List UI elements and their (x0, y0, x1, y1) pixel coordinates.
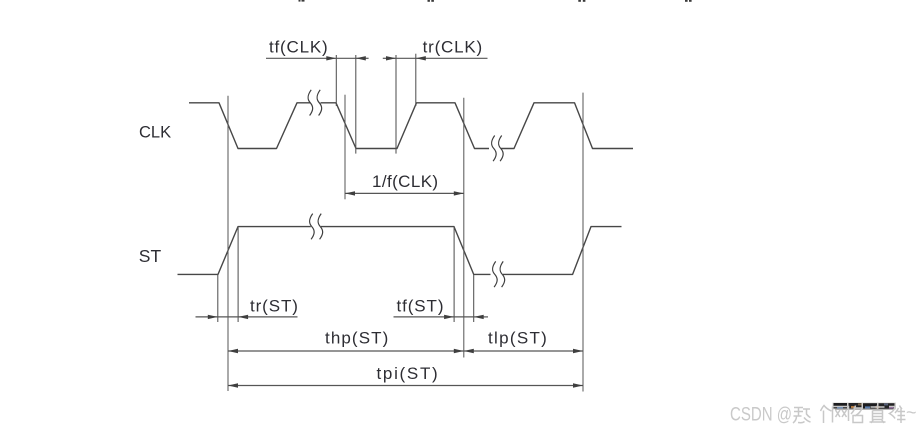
arrow tf(CLK) left (points right) (326, 56, 336, 60)
glyph ming2 (851, 406, 863, 423)
break squiggle CLK low (492, 136, 504, 162)
extension tick tr(ST) right x=238.1 (237, 227, 239, 322)
arrow tf(ST) left (points right) (444, 315, 454, 319)
extension tick tf(ST) left x=454.1 (453, 227, 455, 322)
svg-text:CSDN @: CSDN @ (730, 405, 792, 426)
dimension tr(ST) (196, 316, 298, 318)
top cutoff mark 4 (685, 0, 692, 2)
watermark dark overlay tiny text (833, 403, 897, 410)
reference line V3 x=463.8 (463, 98, 465, 358)
arrow tr(CLK) left (points right) (386, 56, 396, 60)
reference line V1 x=228 (227, 96, 229, 391)
svg-text:tr(ST): tr(ST) (250, 296, 299, 315)
dimension tr(CLK) leader and arrows (383, 57, 488, 59)
reference line V4 x=583 (582, 93, 584, 392)
CLK waveform (189, 103, 633, 149)
arrow 1/f(CLK) right (points right) (454, 191, 464, 195)
arrow thp(ST) right (points right) (454, 349, 464, 353)
dimension tf(CLK) leader and arrows (266, 57, 369, 59)
svg-text:tr(CLK): tr(CLK) (423, 37, 483, 56)
extension tick tf(ST) right x=473.7 (473, 274, 475, 322)
svg-text:ST: ST (139, 246, 162, 266)
glyph qi3 (793, 408, 811, 424)
ST waveform (178, 227, 622, 275)
svg-text:tlp(ST): tlp(ST) (488, 328, 548, 347)
arrow tlp(ST) right (points right) (573, 349, 583, 353)
dimension thp(ST) (228, 350, 464, 352)
reference line V2 x=345 (344, 95, 346, 200)
svg-text:1/f(CLK): 1/f(CLK) (372, 172, 439, 191)
arrow tf(CLK) right (points left) (356, 56, 366, 60)
watermark pseudo CJK glyphs (793, 405, 906, 423)
break squiggle ST high (310, 214, 323, 240)
arrow tlp(ST) left (points left) (464, 349, 474, 353)
arrow thp(ST) left (points left) (228, 349, 238, 353)
svg-text:thp(ST): thp(ST) (325, 328, 389, 347)
extension tick tr(ST) left x=217.8 (217, 274, 219, 322)
top cutoff mark 3 (578, 0, 585, 2)
svg-text:tf(CLK): tf(CLK) (269, 37, 328, 56)
break squiggle CLK high (308, 90, 322, 116)
extension tick tr(CLK) right x=415.8 (415, 54, 417, 106)
glyph zhen1 (870, 405, 886, 423)
arrow tr(ST) right (points left) (238, 315, 248, 319)
arrow tr(ST) left (points right) (208, 315, 218, 319)
dimension tf(ST) (394, 316, 489, 318)
arrow tf(ST) right (points left) (474, 315, 484, 319)
svg-text:~: ~ (906, 403, 916, 423)
dimension 1/f(CLK) (345, 192, 464, 194)
arrow tr(CLK) right (points left) (416, 56, 426, 60)
extension tick tf(CLK) right x=355.8 (355, 55, 357, 154)
extension tick tr(CLK) left x=396 (395, 55, 397, 154)
dimension tpi(ST) (228, 385, 583, 387)
glyph nan2 (889, 406, 906, 424)
top cutoff mark 1 (299, 0, 305, 2)
svg-text:tf(ST): tf(ST) (397, 296, 445, 315)
svg-text:CLK: CLK (139, 123, 171, 141)
dimension tlp(ST) (464, 350, 583, 352)
arrow 1/f(CLK) left (points left) (345, 191, 355, 195)
arrow tpi(ST) right (points right) (573, 383, 583, 387)
glyph ge4 (821, 406, 832, 424)
break squiggle ST low (493, 261, 505, 287)
svg-text:tpi(ST): tpi(ST) (377, 364, 440, 383)
top cutoff mark 2 (428, 0, 434, 2)
glyph wang3 (833, 407, 849, 423)
extension tick tf(CLK) left x=336.3 (335, 55, 337, 106)
arrow tpi(ST) left (points left) (228, 383, 238, 387)
